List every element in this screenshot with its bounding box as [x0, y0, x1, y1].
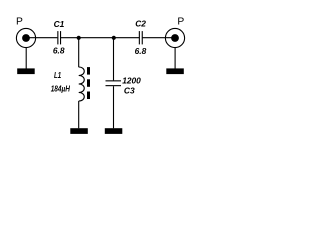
svg-text:C3: C3: [124, 85, 135, 95]
capacitor C2: [139, 31, 143, 44]
svg-text:C2: C2: [135, 19, 146, 29]
wire: left connector to ground: [25, 48, 27, 69]
wire: C2 right plate to right connector center: [142, 37, 175, 39]
svg-text:P: P: [177, 16, 184, 27]
inductor L1 coil: [79, 67, 85, 101]
svg-text:184µH: 184µH: [51, 84, 71, 94]
ground (C3): [105, 128, 123, 134]
svg-text:L1: L1: [54, 70, 61, 80]
node junction 1: [77, 36, 81, 40]
node junction 2: [112, 36, 116, 40]
wire: right connector to ground: [174, 48, 176, 69]
wire: junction 2 down to C3: [113, 38, 115, 81]
capacitor C3: [106, 80, 122, 86]
connector P (left): [16, 28, 35, 47]
wire: junction 1 down to coil: [78, 38, 80, 67]
svg-text:P: P: [16, 17, 23, 28]
wire: C1 right plate to C2 left plate through junctions: [60, 37, 139, 39]
capacitor C1: [57, 31, 61, 44]
connector P (right): [165, 28, 184, 47]
ground (L1): [70, 128, 88, 134]
svg-text:C1: C1: [54, 19, 65, 29]
ground (left connector): [17, 68, 35, 74]
ground (right connector): [166, 68, 184, 74]
svg-text:6.8: 6.8: [53, 46, 65, 56]
svg-text:6.8: 6.8: [135, 46, 147, 56]
svg-text:1200: 1200: [122, 76, 141, 86]
wire: C3 bottom to ground: [113, 86, 115, 128]
inductor L1 core bars: [87, 67, 90, 99]
wire: left connector center to C1 left plate: [26, 37, 57, 39]
wire: coil bottom to ground: [78, 101, 80, 128]
